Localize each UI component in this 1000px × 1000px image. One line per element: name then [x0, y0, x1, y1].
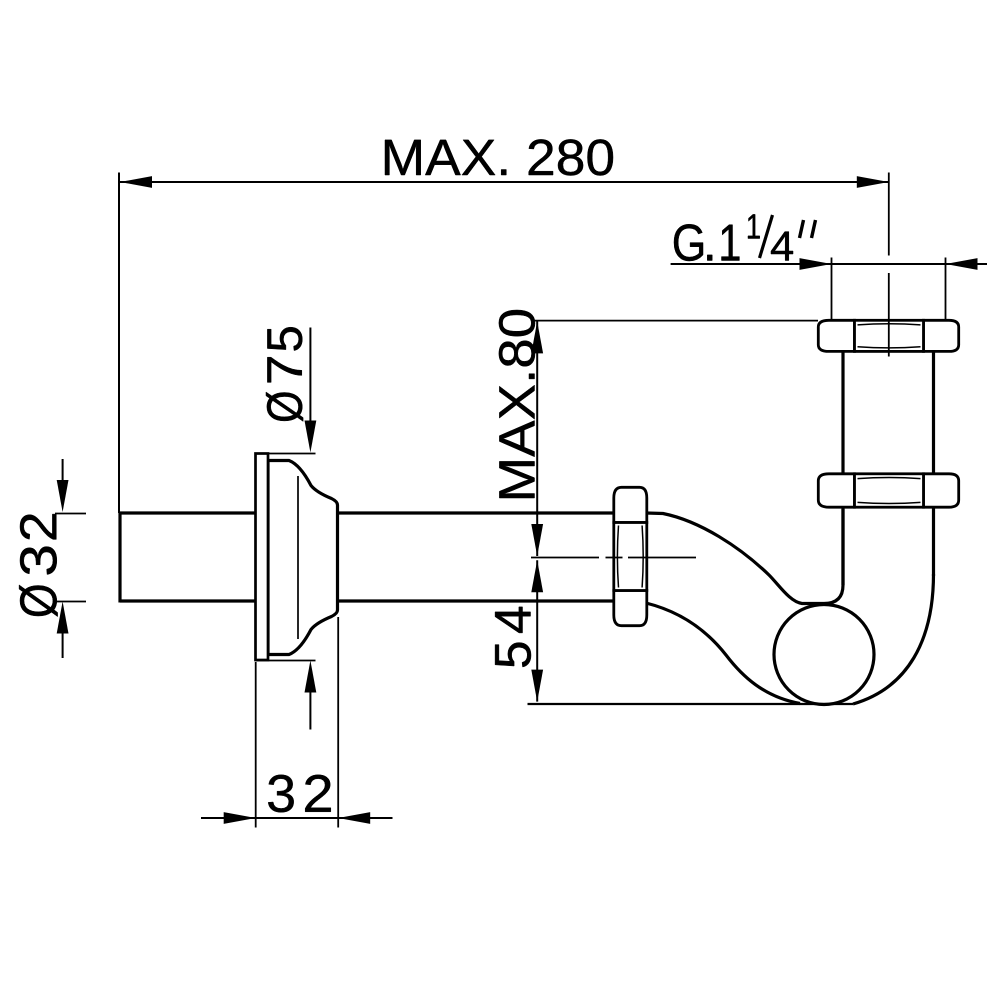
trap outer right curve	[853, 574, 934, 704]
label O75 (rotated)	[266, 327, 303, 421]
centerline of horizontal pipe (dash-dot)	[531, 557, 696, 559]
trap bottom tangent line (also 54 extension line)	[528, 703, 854, 705]
trap bend circle	[774, 605, 874, 705]
label G.1 1/4 inch	[674, 214, 816, 261]
label O32 (rotated)	[19, 514, 58, 617]
arrow O75 bottom (pointing up at flange bottom)	[305, 661, 317, 693]
arrow O32 top (pointing down at pipe top)	[57, 480, 69, 512]
label 54 (rotated)	[495, 607, 531, 667]
dimension G.1 1/4 extension lines	[832, 258, 946, 320]
label MAX. 280	[385, 139, 613, 175]
outlet nut lower (hex nut on vertical pipe)	[818, 474, 958, 507]
wall flange crease line	[297, 476, 299, 639]
wire inlet pipe left end cap	[118, 512, 121, 603]
wall flange plate	[256, 454, 269, 661]
dimension MAX.280 left extension line	[118, 173, 120, 514]
wall flange bell cone	[268, 461, 338, 655]
trap body inner sweep curve (top edge into trap neck)	[646, 509, 843, 604]
dimension MAX.280 line	[120, 181, 889, 183]
trap inlet nut (on horizontal pipe)	[614, 487, 647, 625]
wire horizontal inlet pipe top edge	[120, 511, 614, 514]
arrow G dimension left (pointing right at 831.5)	[800, 258, 832, 270]
label MAX.80 (rotated)	[499, 310, 535, 498]
arrow MAX.80 top (pointing up)	[531, 321, 543, 353]
dimension MAX.80 line	[536, 321, 538, 556]
arrow G dimension right (pointing left at 945.5)	[946, 258, 978, 270]
dimension O32 upper shaft	[62, 459, 64, 481]
trap body outer sweep curve (bottom edge into trap)	[646, 603, 800, 704]
dimension O75 extension bottom	[256, 660, 316, 662]
outlet nut upper (hex nut on vertical pipe)	[818, 320, 958, 351]
arrow 54 bottom (pointing down)	[531, 670, 543, 702]
dimension MAX.80 extension line (top, to nut)	[534, 320, 819, 322]
wire horizontal inlet pipe bottom edge	[120, 599, 614, 602]
dimension G.1 1/4 line	[671, 263, 987, 265]
dimension 32 line (bottom)	[201, 817, 393, 819]
arrow MAX.280 right	[857, 176, 889, 188]
label 32 (bottom)	[268, 775, 331, 813]
dimension O75 lower shaft	[309, 692, 311, 730]
arrow MAX.80 bottom (pointing down at centerline)	[531, 524, 543, 556]
arrow O75 top (pointing down at flange top)	[305, 421, 317, 453]
arrow 32 right (pointing left)	[338, 812, 370, 824]
arrow MAX.280 left	[120, 176, 152, 188]
arrow 32 left (pointing right)	[224, 812, 256, 824]
dimension O75 leader line	[309, 328, 311, 422]
arrow O32 bottom (pointing up at pipe bottom)	[57, 602, 69, 634]
centerline of vertical pipe / MAX.280 right extension	[888, 173, 890, 357]
arrow 54 top (pointing up at centerline)	[531, 560, 543, 592]
dimension 32 extension lines	[256, 617, 339, 828]
wire vertical outlet pipe left edge	[841, 351, 844, 585]
wire vertical outlet pipe right edge	[932, 351, 935, 576]
dimension O32 ticks	[55, 514, 86, 602]
dimension O75 extension top	[268, 453, 316, 455]
dimension O32 lower shaft	[62, 633, 64, 658]
dimension 54 line	[536, 560, 538, 701]
